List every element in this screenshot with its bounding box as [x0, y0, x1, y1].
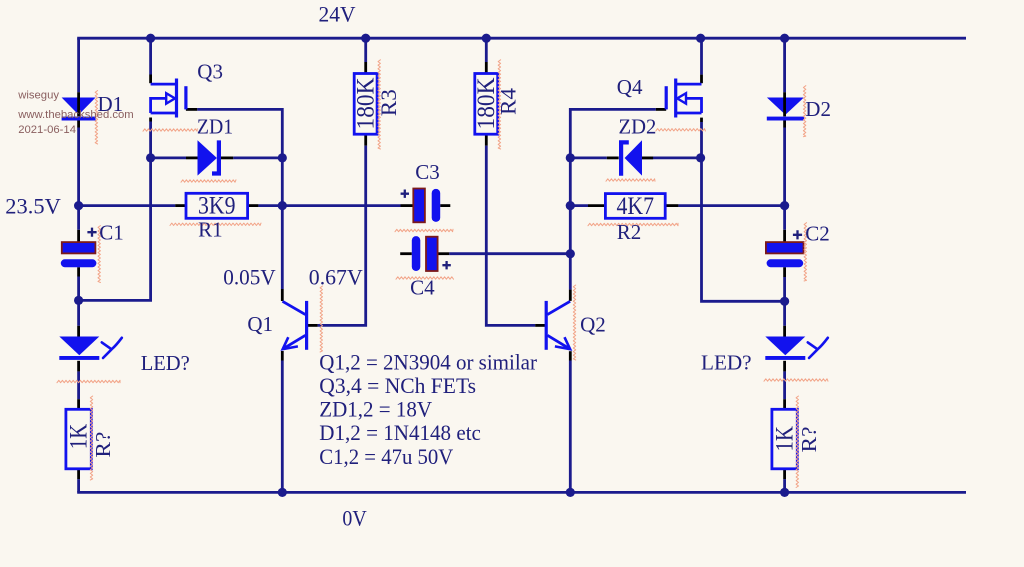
transistor Q1 emitter lead: [284, 335, 306, 348]
highlight squiggle beside resistor R? (right 1K): [796, 396, 798, 488]
zener diode ZD2 body: [625, 140, 642, 175]
diode D1 pin through body: [77, 97, 80, 117]
transistor Q2 base bar: [545, 301, 548, 350]
wire Q1 emitter to 0V rail: [281, 361, 284, 493]
pin ZD2 anode: [642, 156, 653, 159]
capacitor C1 positive plate: [62, 242, 96, 253]
polarity + of C3: [401, 190, 409, 198]
capacitor C2 negative plate: [767, 259, 804, 267]
pin Q2 emitter: [569, 351, 572, 360]
diode D1 cathode bar: [62, 117, 96, 121]
svg-text:0.05V: 0.05V: [223, 265, 275, 290]
capacitor C1 negative plate: [61, 259, 97, 267]
pin R2 right: [665, 204, 678, 207]
svg-text:1K: 1K: [65, 424, 92, 450]
capacitor C3 negative plate: [432, 189, 441, 222]
junction 4K7 / right rail node: [780, 201, 789, 210]
wire right rail LED2 to 1K: [783, 371, 786, 399]
svg-text:C1,2 = 47u 50V: C1,2 = 47u 50V: [319, 444, 453, 469]
svg-text:4K7: 4K7: [617, 193, 655, 220]
LED1 cathode bar: [59, 356, 99, 360]
svg-text:wiseguy: wiseguy: [17, 90, 59, 102]
pin R1 right: [248, 204, 259, 207]
transistor Q3 drain lead: [151, 83, 177, 86]
svg-text:23.5V: 23.5V: [5, 194, 61, 219]
LED2 indicator arrow: [808, 338, 828, 358]
wire right rail 1K to 0V: [783, 479, 786, 492]
highlight squiggle under Q4: [656, 129, 706, 131]
pin Q1 collector: [281, 289, 284, 301]
pin D1 cathode: [77, 120, 80, 127]
highlight squiggle beside Q1: [320, 286, 322, 352]
resistor R4 box (180K): [475, 74, 498, 135]
pin left 1K bottom: [77, 469, 80, 479]
svg-text:Q4: Q4: [617, 75, 643, 99]
resistor R? box (right 1K): [772, 409, 797, 469]
svg-text:LED?: LED?: [701, 351, 752, 375]
diode D2 pin through body: [783, 97, 786, 117]
junction 24V rail / D2 branch: [780, 34, 789, 43]
wire left rail D1 to 23.5V node to C1: [77, 128, 80, 230]
wire C4 negative lead to Q2 collector node: [449, 252, 570, 255]
pin C4 negative: [438, 252, 450, 255]
wire 24V rail to R4: [485, 38, 488, 62]
transistor Q4 source lead: [676, 112, 702, 115]
transistor Q4 gate bar: [665, 86, 668, 109]
pin C3 negative (unconnected stub): [440, 204, 450, 207]
pin ZD1 anode: [186, 156, 198, 159]
polarity + of C2: [793, 230, 802, 239]
wire Q4 source down and across to right rail: [702, 122, 785, 301]
wire bottom rail 0V: [77, 491, 966, 494]
transistor Q2 collector lead: [547, 301, 570, 314]
pin Q1 base: [308, 324, 318, 327]
pin ZD1 cathode: [221, 156, 233, 159]
highlight squiggle under Q3: [143, 129, 197, 131]
polarity + of C1: [87, 228, 96, 237]
svg-text:C3: C3: [415, 160, 440, 184]
pin R4 top: [485, 62, 488, 74]
wire 4K7 right lead to right rail: [678, 204, 784, 207]
pin ZD2 cathode: [607, 156, 619, 159]
polarity + of C4: [442, 261, 450, 269]
pin R4 bottom: [485, 134, 488, 145]
wire top rail 24V: [77, 37, 966, 40]
svg-text:1K: 1K: [771, 426, 798, 452]
svg-text:ZD2: ZD2: [619, 115, 657, 139]
pin Q4 gate: [656, 108, 666, 111]
LED1 indicator arrow: [102, 338, 122, 358]
pin D2 anode: [783, 92, 786, 96]
pin Q3 source: [149, 118, 152, 122]
capacitor C4 positive plate: [426, 237, 438, 271]
junction node A (R1 / C3 / Q1 collector, 0.05V): [278, 201, 287, 210]
zener diode ZD2 cathode bar: [621, 142, 629, 175]
diode D1 body: [62, 98, 96, 115]
highlight squiggle under R2: [588, 223, 678, 225]
diode D2 cathode bar: [767, 117, 804, 121]
pin R3 bottom: [364, 134, 367, 145]
svg-text:D1: D1: [98, 92, 124, 116]
zener diode ZD1 cathode bar: [212, 140, 219, 173]
junction 24V rail / R3: [361, 34, 370, 43]
LED2 cathode bar: [765, 356, 805, 360]
transistor Q4 channel bar: [674, 79, 677, 118]
wire Q2 emitter to 0V rail: [569, 361, 572, 493]
svg-text:D1,2 = 1N4148 etc: D1,2 = 1N4148 etc: [319, 420, 481, 445]
transistor Q3 bulk lead: [151, 98, 167, 113]
transistor Q2 emitter arrow: [555, 337, 570, 349]
transistor Q3 gate bar: [184, 86, 187, 109]
pin C1 positive: [77, 230, 80, 242]
wire right rail C2 to LED2: [783, 277, 786, 326]
highlight squiggle beside C1: [98, 226, 100, 283]
pin LED2 cathode: [783, 361, 786, 372]
svg-text:R?: R?: [91, 432, 115, 458]
highlight squiggle beside R4: [498, 60, 500, 149]
svg-text:D2: D2: [805, 97, 831, 121]
svg-text:C1: C1: [99, 221, 124, 245]
wire R3 to Q1 base (0.67V node): [318, 146, 366, 326]
wire left rail 1K to 0V: [77, 479, 80, 492]
pin right 1K bottom: [783, 469, 786, 479]
wire left rail C1 to LED1: [77, 277, 80, 326]
pin Q2 collector: [569, 290, 572, 301]
wire right rail upper segment (24V to D2): [783, 38, 786, 92]
svg-text:C4: C4: [410, 275, 435, 299]
pin left 1K top: [77, 399, 80, 409]
transistor Q2 emitter lead: [547, 335, 569, 348]
junction left rail / Q3 source return: [74, 296, 83, 305]
pin Q3 gate: [186, 108, 197, 111]
wire ZD1 anode lead: [151, 156, 186, 159]
svg-text:Q2: Q2: [580, 313, 606, 337]
svg-text:ZD1: ZD1: [197, 115, 233, 139]
wire left rail upper segment (24V to D1): [77, 38, 80, 92]
pin D1 anode: [77, 92, 80, 96]
wire left rail LED1 to 1K: [77, 371, 80, 399]
wire ZD1 cathode lead: [233, 156, 282, 159]
svg-text:R4: R4: [496, 88, 521, 115]
wire ZD2 cathode lead: [570, 156, 607, 159]
svg-text:Q3: Q3: [197, 60, 223, 84]
highlight squiggle under C4: [396, 277, 454, 279]
svg-text:2021-06-14: 2021-06-14: [18, 124, 76, 136]
highlight squiggle under ZD2: [606, 179, 655, 181]
pin LED1 cathode: [77, 361, 80, 372]
pin C2 positive: [783, 230, 786, 242]
junction ZD1 anode node: [146, 153, 155, 162]
pin Q2 base: [535, 324, 545, 327]
svg-text:R?: R?: [797, 427, 821, 453]
capacitor C4 negative plate: [412, 236, 421, 271]
junction ZD2 cathode / Q4 gate node: [566, 153, 575, 162]
pin D2 cathode: [783, 120, 786, 127]
svg-text:3K9: 3K9: [198, 193, 236, 220]
transistor Q4 bulk arrow: [677, 93, 686, 103]
highlight squiggle beside D1: [95, 91, 97, 145]
highlight squiggle under ZD1: [181, 180, 236, 182]
transistor Q1 base bar: [305, 301, 308, 350]
transistor Q4 bulk lead: [686, 98, 702, 113]
svg-text:Q3,4 = NCh FETs: Q3,4 = NCh FETs: [319, 373, 476, 398]
highlight squiggle beside resistor R? (left 1K): [90, 396, 92, 480]
LED1 body: [59, 337, 99, 356]
junction 0V rail / Q1 emitter: [278, 488, 287, 497]
transistor Q1 collector lead: [283, 301, 306, 314]
wire Q3 source down to ZD1 anode and across to left rail: [79, 122, 151, 301]
pin C1 negative: [77, 267, 80, 276]
junction ZD2 anode node: [696, 153, 705, 162]
wire ZD2 anode lead: [642, 156, 702, 159]
junction 24V rail / Q3 branch: [146, 34, 155, 43]
pin Q1 emitter: [281, 351, 284, 361]
pin Q3 drain: [149, 75, 152, 84]
wire Q4 gate to ZD2 cathode node down to Q2 collector: [570, 109, 656, 289]
wire node A to C3 positive lead: [282, 204, 400, 207]
pin C4 positive (unconnected stub): [400, 252, 412, 255]
zener diode ZD1 body: [198, 140, 217, 175]
junction 23.5V node: [74, 201, 83, 210]
wire 23.5V node to R1: [79, 204, 176, 207]
wire 24V rail to Q3 drain: [149, 38, 152, 74]
junction 0V rail / right 1K: [780, 488, 789, 497]
wire 24V rail to R3: [364, 38, 367, 62]
highlight squiggle under LED1: [57, 380, 120, 382]
resistor R3 box (180K): [354, 74, 377, 135]
resistor R? box (left 1K): [66, 409, 91, 469]
svg-text:C2: C2: [805, 222, 830, 246]
wire Q3 gate to ZD1 cathode node down to Q1 collector: [197, 109, 282, 289]
highlight squiggle beside D2: [803, 86, 805, 137]
highlight squiggle beside C2: [804, 223, 806, 281]
pin R2 left: [588, 204, 605, 207]
junction ZD1 cathode / Q3 gate node: [278, 153, 287, 162]
wire 24V rail to Q4 drain: [700, 38, 703, 74]
svg-text:Q1: Q1: [247, 312, 273, 336]
highlight squiggle under LED2: [764, 379, 828, 381]
svg-text:ZD1,2 = 18V: ZD1,2 = 18V: [319, 396, 432, 421]
svg-text:R2: R2: [617, 220, 642, 244]
capacitor C2 positive plate: [766, 242, 804, 253]
junction C4 / Q2 collector node: [566, 249, 575, 258]
resistor R2 box (4K7): [605, 194, 665, 219]
junction 24V rail / R4: [482, 34, 491, 43]
highlight squiggle under C3: [395, 229, 453, 231]
LED2 body: [765, 337, 805, 356]
junction 0V rail / Q2 emitter: [566, 488, 575, 497]
highlight squiggle beside R3: [378, 60, 380, 149]
diode D2 body: [767, 98, 804, 115]
pin C3 positive: [401, 204, 414, 207]
junction 4K7 left node: [566, 201, 575, 210]
highlight squiggle under R1: [170, 223, 261, 225]
svg-text:0V: 0V: [342, 505, 366, 530]
wire 4K7 left lead: [570, 204, 588, 207]
resistor R1 box (3K9): [186, 193, 248, 218]
pin LED1 anode: [77, 326, 80, 337]
highlight squiggle beside Q2: [573, 285, 575, 360]
pin R3 top: [364, 62, 367, 74]
wire right rail D2 to C2: [783, 128, 786, 230]
svg-text:R3: R3: [376, 89, 401, 116]
pin Q4 drain: [700, 75, 703, 84]
pin Q4 source: [700, 118, 703, 122]
transistor Q1 emitter arrow: [283, 337, 298, 349]
pin right 1K top: [783, 399, 786, 409]
capacitor C3 positive plate: [413, 189, 425, 223]
wire R1 to node A: [258, 204, 282, 207]
transistor Q4 drain lead: [676, 83, 702, 86]
junction 24V rail / Q4 branch: [696, 34, 705, 43]
junction right rail / Q4 source return: [780, 297, 789, 306]
svg-text:0.67V: 0.67V: [309, 265, 363, 290]
svg-text:LED?: LED?: [141, 351, 190, 375]
pin R1 left: [175, 204, 186, 207]
transistor Q3 channel bar: [175, 79, 178, 118]
svg-text:24V: 24V: [319, 1, 356, 26]
transistor Q3 bulk arrow: [166, 93, 175, 103]
wire R4 to Q2 base: [486, 146, 535, 326]
svg-text:Q1,2 = 2N3904 or similar: Q1,2 = 2N3904 or similar: [319, 349, 537, 374]
pin LED2 anode: [783, 326, 786, 337]
svg-text:R1: R1: [198, 218, 223, 242]
transistor Q3 source lead: [151, 112, 177, 115]
pin C2 negative: [783, 267, 786, 277]
